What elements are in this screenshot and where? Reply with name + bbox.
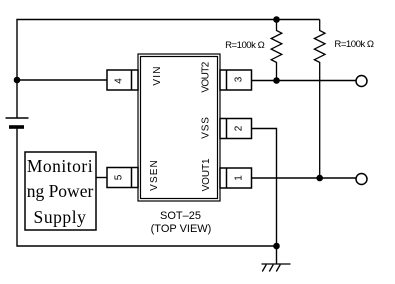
op-amp U1 SOT-25 body inner xyxy=(141,57,218,199)
wire node to pin 4 xyxy=(17,79,107,81)
svg-text:Supply: Supply xyxy=(34,207,87,227)
pin 3 box xyxy=(220,70,252,90)
svg-text:VOUT2: VOUT2 xyxy=(201,61,212,92)
node junction R1 / pin3 wire xyxy=(273,77,280,84)
wire pin 1 VOUT1 to terminal xyxy=(252,177,356,179)
wire monitoring box to pin 5 xyxy=(96,177,107,179)
op-amp U1 SOT-25 body outer xyxy=(138,54,220,201)
battery B1 plate negative xyxy=(9,125,24,129)
svg-text:VIN: VIN xyxy=(152,65,163,85)
wire pin 2 VSS right and down to ground xyxy=(252,129,277,247)
svg-text:3: 3 xyxy=(234,76,245,82)
resistor R2 xyxy=(314,20,325,179)
wire left vertical battery - down and bottom rail to ground junction xyxy=(17,129,277,247)
pin 5 box xyxy=(107,168,138,188)
wire ground stem xyxy=(276,246,278,264)
monitoring power supply text xyxy=(27,156,94,227)
terminal circle output 2 xyxy=(356,76,367,87)
ground symbol xyxy=(262,264,291,272)
svg-text:VSEN: VSEN xyxy=(149,159,160,191)
node junction left rail / pin4 branch xyxy=(14,77,21,84)
svg-text:SOT–25: SOT–25 xyxy=(160,210,201,222)
svg-text:Monitori: Monitori xyxy=(27,156,93,176)
svg-text:5: 5 xyxy=(114,174,125,180)
node junction top rail / R1 xyxy=(273,16,280,23)
svg-text:(TOP VIEW): (TOP VIEW) xyxy=(151,223,212,235)
monitoring power supply box xyxy=(25,152,96,230)
node junction bottom rail / ground xyxy=(273,243,280,250)
svg-text:2: 2 xyxy=(234,125,245,131)
wire pin 3 VOUT2 to terminal xyxy=(252,80,357,82)
pin 4 box xyxy=(107,70,138,90)
svg-text:R=100k Ω: R=100k Ω xyxy=(225,40,264,51)
pin 1 box xyxy=(220,168,252,188)
svg-text:ng Power: ng Power xyxy=(27,181,94,201)
svg-text:1: 1 xyxy=(234,175,245,181)
terminal circle output 1 xyxy=(356,174,367,185)
resistor R1 xyxy=(271,20,282,81)
svg-text:VOUT1: VOUT1 xyxy=(201,158,212,191)
wire top horizontal VIN rail and left vertical to battery + xyxy=(17,20,320,119)
svg-text:4: 4 xyxy=(114,78,125,84)
svg-text:R=100k Ω: R=100k Ω xyxy=(334,39,374,50)
svg-text:VSS: VSS xyxy=(201,116,212,138)
battery B1 plate positive xyxy=(6,117,29,119)
pin 2 box xyxy=(220,119,252,139)
node junction R2 / pin1 wire xyxy=(316,175,323,182)
